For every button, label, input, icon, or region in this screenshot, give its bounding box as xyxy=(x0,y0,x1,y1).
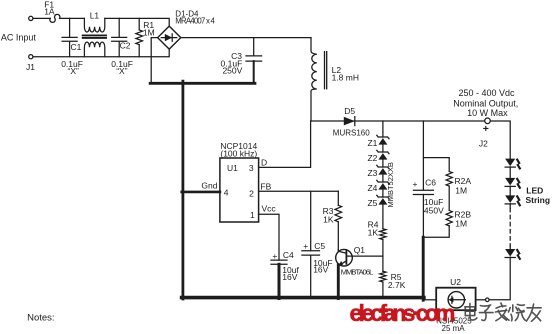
svg-text:C4: C4 xyxy=(283,250,294,260)
svg-text:Nominal Output,: Nominal Output, xyxy=(453,98,518,108)
svg-text:Z2: Z2 xyxy=(367,153,377,163)
svg-text:1M: 1M xyxy=(455,218,467,228)
svg-text:String: String xyxy=(526,195,551,205)
svg-text:U2: U2 xyxy=(450,277,461,287)
svg-text:Z5: Z5 xyxy=(367,198,377,208)
svg-text:250 - 400 Vdc: 250 - 400 Vdc xyxy=(458,88,515,98)
svg-text:2.7K: 2.7K xyxy=(388,280,406,290)
svg-text:J1: J1 xyxy=(26,62,35,72)
svg-text:D5: D5 xyxy=(344,106,355,116)
svg-text:4: 4 xyxy=(224,188,229,198)
svg-text:1: 1 xyxy=(250,210,255,220)
svg-text:elecfans·com: elecfans·com xyxy=(350,300,456,326)
svg-text:MRA4007 x 4: MRA4007 x 4 xyxy=(175,17,215,26)
svg-text:MMBT52XXB: MMBT52XXB xyxy=(386,162,395,207)
svg-text:10 W Max: 10 W Max xyxy=(467,108,508,118)
svg-text:1K: 1K xyxy=(368,228,379,238)
svg-text:FB: FB xyxy=(260,182,271,192)
svg-text:MURS160: MURS160 xyxy=(333,128,370,137)
svg-text:D: D xyxy=(261,158,267,168)
svg-text:LED: LED xyxy=(526,186,543,196)
svg-text:R2A: R2A xyxy=(455,176,472,186)
svg-text:“X”: “X” xyxy=(68,66,80,76)
svg-text:Vcc: Vcc xyxy=(262,203,277,213)
svg-text:L1: L1 xyxy=(90,11,100,21)
svg-text:C6: C6 xyxy=(425,177,436,187)
svg-text:Notes:: Notes: xyxy=(27,312,54,323)
svg-text:J2: J2 xyxy=(479,138,488,148)
svg-text:1M: 1M xyxy=(143,27,155,37)
svg-text:Z1: Z1 xyxy=(367,138,377,148)
svg-text:3: 3 xyxy=(249,163,254,173)
svg-text:C2: C2 xyxy=(120,40,131,50)
svg-text:Q1: Q1 xyxy=(354,245,366,255)
svg-text:“X”: “X” xyxy=(116,66,128,76)
svg-text:16V: 16V xyxy=(282,272,297,282)
svg-text:2: 2 xyxy=(249,188,254,198)
svg-text:MMBTA06L: MMBTA06L xyxy=(341,268,374,277)
svg-text:AC Input: AC Input xyxy=(1,32,37,42)
svg-text:1M: 1M xyxy=(455,186,467,196)
svg-text:Gnd: Gnd xyxy=(201,181,217,191)
svg-text:+: + xyxy=(272,251,277,261)
svg-text:C1: C1 xyxy=(71,42,82,52)
svg-text:+: + xyxy=(413,179,418,189)
svg-text:250V: 250V xyxy=(222,66,242,76)
svg-text:16V: 16V xyxy=(313,265,328,275)
svg-text:Z3: Z3 xyxy=(367,168,377,178)
svg-text:+: + xyxy=(483,123,489,135)
svg-text:450V: 450V xyxy=(424,206,444,216)
svg-text:C5: C5 xyxy=(314,241,325,251)
svg-text:1K: 1K xyxy=(323,214,334,224)
svg-text:1A: 1A xyxy=(44,7,55,17)
svg-text:U1: U1 xyxy=(227,163,238,173)
svg-text:(100 kHz): (100 kHz) xyxy=(220,149,257,159)
svg-text:Z4: Z4 xyxy=(367,183,377,193)
svg-text:1.8 mH: 1.8 mH xyxy=(332,73,359,83)
svg-text:+: + xyxy=(303,241,308,251)
